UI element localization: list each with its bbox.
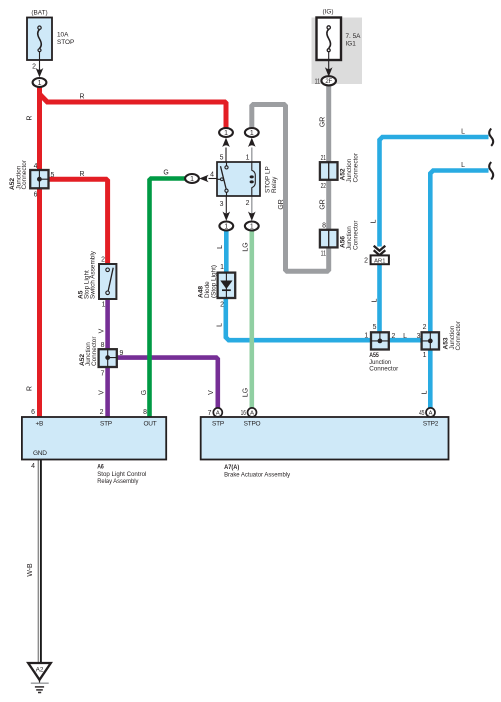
svg-text:A7(A): A7(A) bbox=[224, 464, 239, 471]
wire relay pin3 bbox=[225, 196, 227, 213]
wire GR from relay pin1 oval via A52,A56 to IG fuse bbox=[252, 85, 329, 271]
svg-text:A6: A6 bbox=[97, 463, 104, 470]
node oval 1 below fuse STOP bbox=[33, 78, 47, 87]
svg-text:LG: LG bbox=[243, 388, 250, 397]
svg-text:Switch Assembly: Switch Assembly bbox=[90, 250, 97, 299]
junction connector A56 pins 8,11 bbox=[320, 230, 338, 248]
svg-text:L: L bbox=[461, 162, 465, 169]
svg-text:1: 1 bbox=[246, 155, 250, 162]
svg-text:R: R bbox=[80, 171, 85, 178]
svg-text:16: 16 bbox=[241, 410, 247, 417]
svg-text:Connector: Connector bbox=[21, 159, 28, 189]
wire relay pin1 bbox=[251, 148, 253, 163]
svg-text:R: R bbox=[27, 386, 34, 391]
svg-text:4: 4 bbox=[34, 163, 38, 170]
node oval 1 at relay pin4 bbox=[185, 174, 199, 183]
svg-text:7. 5A: 7. 5A bbox=[346, 33, 362, 40]
svg-text:W-B: W-B bbox=[27, 563, 34, 577]
wire L right edge via A53 to STP2 bbox=[430, 171, 488, 409]
svg-text:R: R bbox=[27, 115, 34, 120]
svg-text:2: 2 bbox=[100, 409, 104, 416]
svg-text:STPO: STPO bbox=[244, 421, 261, 428]
junction connector A52 pins 21,22 bbox=[320, 162, 338, 180]
relay STOP LP bbox=[217, 162, 260, 196]
svg-text:STP: STP bbox=[100, 421, 112, 428]
svg-text:L: L bbox=[217, 323, 224, 327]
svg-text:1: 1 bbox=[250, 130, 254, 137]
wire R branch from A52 pin5 to stop light switch bbox=[47, 179, 108, 265]
wire relay pin2 bbox=[251, 196, 253, 213]
svg-text:+B: +B bbox=[36, 421, 44, 428]
arrow into oval above relay pin5 bbox=[222, 138, 230, 147]
svg-text:A55: A55 bbox=[369, 352, 379, 359]
svg-text:1: 1 bbox=[364, 333, 368, 340]
junction connector A53 bbox=[422, 332, 439, 349]
svg-text:2: 2 bbox=[423, 324, 427, 331]
wire relay pin4 bbox=[209, 178, 218, 180]
svg-text:2: 2 bbox=[101, 257, 105, 264]
svg-text:IG1: IG1 bbox=[346, 41, 357, 48]
arrow into oval below relay pin2 bbox=[248, 212, 256, 221]
svg-text:1: 1 bbox=[224, 130, 228, 137]
node oval 1 below relay pin3 bbox=[219, 222, 233, 231]
junction connector A55 bbox=[371, 332, 389, 349]
svg-text:(Stop Light): (Stop Light) bbox=[211, 265, 218, 298]
svg-text:4: 4 bbox=[31, 463, 35, 470]
svg-text:2: 2 bbox=[364, 258, 368, 265]
svg-text:V: V bbox=[99, 390, 106, 395]
svg-text:1: 1 bbox=[250, 223, 254, 230]
svg-text:(BAT): (BAT) bbox=[31, 10, 47, 17]
svg-text:Connector: Connector bbox=[91, 336, 98, 366]
svg-text:Relay Assembly: Relay Assembly bbox=[97, 478, 139, 485]
double chevron above AR1 bbox=[374, 246, 386, 256]
svg-text:OUT: OUT bbox=[144, 421, 157, 428]
svg-text:Connector: Connector bbox=[353, 220, 360, 250]
svg-text:Connector: Connector bbox=[455, 320, 462, 350]
junction connector A52 pins 4,5,6 bbox=[30, 170, 48, 188]
arrow into oval 2F below fuse IG1 bbox=[325, 67, 333, 76]
svg-text:L: L bbox=[371, 219, 378, 223]
wire L relay pin3 oval to diode A48 bbox=[224, 229, 229, 274]
svg-text:2F: 2F bbox=[325, 79, 332, 85]
wire L AR1 to A55 pin5 bbox=[377, 265, 382, 341]
ground symbol A2 bbox=[28, 663, 51, 693]
svg-text:21: 21 bbox=[321, 155, 327, 162]
svg-text:L: L bbox=[372, 298, 379, 302]
svg-text:4: 4 bbox=[210, 172, 214, 179]
svg-text:1: 1 bbox=[102, 302, 106, 309]
diode A48 (stop light) bbox=[218, 273, 236, 298]
CONNECTOR OVALS bbox=[33, 76, 336, 230]
noise filter AR1 bbox=[371, 255, 389, 264]
wire fuse IG1 to oval 2F bbox=[328, 61, 330, 71]
svg-text:L: L bbox=[422, 390, 429, 394]
svg-text:5: 5 bbox=[220, 155, 224, 162]
svg-text:2: 2 bbox=[32, 64, 36, 71]
svg-text:1: 1 bbox=[224, 223, 228, 230]
node oval 1 above relay pin1 bbox=[245, 128, 259, 137]
svg-text:V: V bbox=[99, 328, 106, 333]
svg-text:L: L bbox=[217, 245, 224, 249]
svg-text:GR: GR bbox=[320, 199, 327, 209]
svg-text:A2: A2 bbox=[36, 667, 44, 674]
svg-text:5: 5 bbox=[373, 324, 377, 331]
node oval 2F below fuse IG1 bbox=[321, 76, 336, 85]
svg-text:10A: 10A bbox=[57, 32, 69, 39]
svg-text:A: A bbox=[429, 411, 433, 417]
svg-text:6: 6 bbox=[34, 192, 38, 199]
svg-text:A: A bbox=[250, 411, 254, 417]
svg-text:STP: STP bbox=[212, 421, 224, 428]
wire LG relay pin2 oval to STPO bbox=[250, 229, 255, 409]
svg-text:Stop Light Control: Stop Light Control bbox=[97, 471, 146, 478]
svg-text:G: G bbox=[163, 170, 168, 177]
node circle A at STPO pin16 bbox=[248, 408, 257, 417]
arrow into oval at relay pin4 bbox=[199, 175, 208, 183]
svg-text:2: 2 bbox=[220, 302, 224, 309]
wire G from relay pin4 oval to OUT bbox=[150, 179, 187, 417]
wire R main vertical from fuse to +B bbox=[37, 85, 42, 417]
fuse IG1 7.5A (IG) bbox=[317, 18, 342, 61]
svg-text:1: 1 bbox=[220, 264, 224, 271]
svg-text:8: 8 bbox=[322, 223, 326, 230]
svg-text:GR: GR bbox=[278, 199, 285, 209]
svg-text:STOP: STOP bbox=[57, 39, 74, 46]
ECU box A7 brake actuator assembly bbox=[201, 417, 449, 460]
stop light switch assembly A5 bbox=[99, 264, 116, 299]
svg-text:1: 1 bbox=[423, 352, 427, 359]
svg-text:LG: LG bbox=[243, 242, 250, 251]
wire W-B ground wire from GND to ground symbol bbox=[37, 460, 39, 664]
svg-text:7: 7 bbox=[208, 410, 212, 417]
node oval 1 above relay pin5 bbox=[219, 128, 233, 137]
svg-text:5: 5 bbox=[51, 172, 55, 179]
svg-text:1: 1 bbox=[190, 176, 194, 183]
wire R top branch to relay pin5 oval bbox=[40, 95, 226, 130]
svg-text:R: R bbox=[80, 94, 85, 101]
svg-text:9: 9 bbox=[120, 350, 124, 357]
svg-text:3: 3 bbox=[417, 333, 421, 340]
svg-text:7: 7 bbox=[101, 371, 105, 378]
svg-text:3: 3 bbox=[220, 201, 224, 208]
shaded background for IG fuse bbox=[312, 18, 363, 85]
wire V from switch pin1 to STP bbox=[105, 298, 110, 417]
svg-text:22: 22 bbox=[321, 183, 327, 190]
arrow into oval below relay pin3 bbox=[223, 212, 231, 221]
node oval 1 below relay pin2 bbox=[245, 222, 259, 231]
wire break curl top right 2 bbox=[489, 162, 493, 179]
svg-text:A: A bbox=[216, 411, 220, 417]
svg-text:GND: GND bbox=[33, 450, 47, 457]
svg-text:8: 8 bbox=[143, 409, 147, 416]
wire V branch from A52 pin9 to brake actuator STP bbox=[116, 358, 217, 409]
node circle A at STP pin7 bbox=[213, 408, 222, 417]
arrow into oval above relay pin1 bbox=[248, 138, 256, 147]
svg-text:Connector: Connector bbox=[353, 152, 360, 182]
svg-text:2: 2 bbox=[246, 200, 250, 207]
svg-text:Relay: Relay bbox=[271, 176, 278, 193]
svg-text:V: V bbox=[208, 390, 215, 395]
svg-text:2: 2 bbox=[392, 333, 396, 340]
svg-text:Brake Actuator Assembly: Brake Actuator Assembly bbox=[224, 471, 291, 478]
wire L right edge to AR1 bbox=[380, 137, 489, 247]
wire break curl top right 1 bbox=[489, 129, 493, 146]
svg-text:11: 11 bbox=[321, 251, 327, 258]
svg-text:GR: GR bbox=[320, 117, 327, 127]
svg-text:STP2: STP2 bbox=[423, 421, 439, 428]
svg-text:45: 45 bbox=[419, 410, 425, 417]
wire fuse STOP to oval bbox=[39, 60, 41, 70]
wire relay pin5 bbox=[225, 148, 227, 163]
svg-text:L: L bbox=[403, 333, 407, 340]
svg-text:L: L bbox=[461, 129, 465, 136]
node circle A at STP2 pin45 bbox=[426, 408, 435, 417]
ECU box A6 stop light control relay assembly bbox=[22, 417, 166, 460]
svg-text:AR1: AR1 bbox=[374, 258, 385, 264]
wire L diode A48 to A55/A53 bbox=[226, 298, 430, 341]
THIN CONNECTOR LINES AND ARROWS bbox=[40, 60, 329, 213]
svg-text:11: 11 bbox=[315, 79, 321, 86]
svg-text:8: 8 bbox=[101, 342, 105, 349]
svg-text:6: 6 bbox=[31, 409, 35, 416]
svg-text:1: 1 bbox=[38, 80, 42, 87]
svg-text:Connector: Connector bbox=[369, 366, 399, 373]
fuse STOP 10A (BAT) bbox=[27, 18, 52, 61]
junction connector A52 pins 8,9,7 bbox=[99, 349, 117, 367]
svg-text:G: G bbox=[141, 390, 148, 395]
arrow into oval below fuse STOP bbox=[36, 68, 44, 77]
svg-text:(IG): (IG) bbox=[322, 9, 333, 16]
